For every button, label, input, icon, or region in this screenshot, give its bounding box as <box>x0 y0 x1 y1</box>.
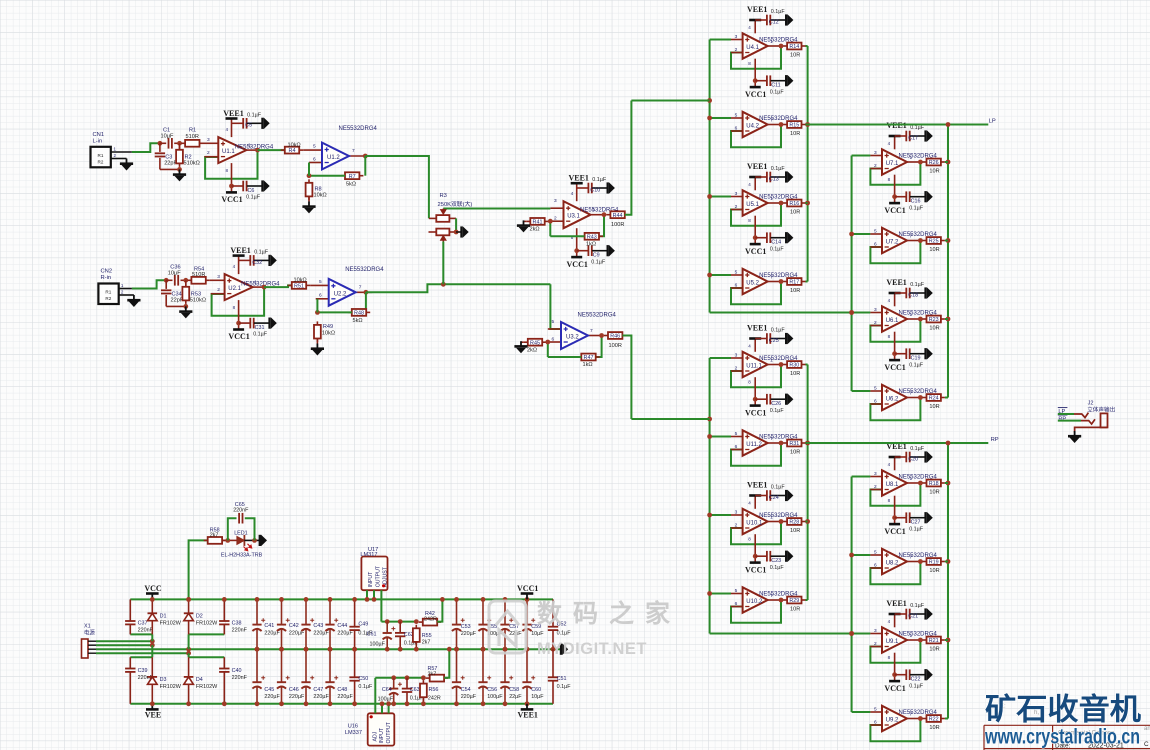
pin <box>731 357 743 359</box>
power port <box>786 490 793 502</box>
wire <box>754 216 756 244</box>
svg-text:R48: R48 <box>354 311 364 317</box>
wire <box>151 645 153 657</box>
capacitor C18 0.1uF <box>906 288 909 299</box>
capacitor C23 0.1uF <box>767 551 770 562</box>
svg-text:2: 2 <box>874 641 877 647</box>
wire (tap) <box>710 514 731 516</box>
svg-text:C40: C40 <box>232 668 242 674</box>
svg-text:C25: C25 <box>769 338 779 344</box>
wire (VEE bottom rail) <box>130 703 553 705</box>
svg-text:U10.1: U10.1 <box>746 521 763 527</box>
pin <box>731 593 743 595</box>
resistor R57 <box>426 675 448 682</box>
svg-text:C63: C63 <box>410 687 420 693</box>
svg-text:C50: C50 <box>358 676 368 682</box>
resistor R23 <box>923 316 945 324</box>
junction <box>405 675 410 680</box>
resistor R31 <box>783 440 805 448</box>
resistor R48 <box>348 309 370 317</box>
svg-text:1: 1 <box>910 476 913 482</box>
capacitor C58 22µF <box>500 649 513 704</box>
svg-text:0.1µF: 0.1µF <box>910 603 925 609</box>
svg-text:INPUT: INPUT <box>368 571 374 587</box>
svg-text:2kΩ: 2kΩ <box>527 347 537 353</box>
junction <box>849 232 854 237</box>
wire <box>308 196 310 201</box>
svg-text:J2: J2 <box>1088 401 1094 407</box>
junction <box>918 395 923 400</box>
svg-text:C18: C18 <box>908 292 918 298</box>
power port VCC1 (C16) <box>889 202 900 205</box>
wire (tap) <box>852 312 871 314</box>
svg-text:10R: 10R <box>790 371 800 377</box>
svg-text:CN1: CN1 <box>93 132 105 138</box>
op-amp U9.1 <box>882 627 907 652</box>
svg-text:C14: C14 <box>771 240 781 246</box>
pin <box>907 397 920 399</box>
ground (CN2) <box>127 295 140 307</box>
wire (seg D4-C40) <box>189 656 225 658</box>
svg-text:2kΩ: 2kΩ <box>530 227 540 233</box>
power port VEE1 (C20) <box>889 456 901 459</box>
op-amp U3.1 <box>564 201 591 228</box>
svg-text:0.1µF: 0.1µF <box>253 332 268 338</box>
pin <box>768 281 781 283</box>
svg-text:10R: 10R <box>929 168 939 174</box>
wire (feedback) <box>870 319 920 342</box>
power port <box>926 512 933 524</box>
junction <box>481 701 486 706</box>
junction <box>918 481 923 486</box>
svg-text:C26: C26 <box>771 401 781 407</box>
svg-text:ADJ: ADJ <box>372 731 378 741</box>
power port <box>786 171 793 183</box>
svg-text:0.1µF: 0.1µF <box>591 259 606 265</box>
capacitor C31 0.1uF <box>250 318 253 329</box>
svg-text:7: 7 <box>910 712 913 718</box>
junction <box>946 238 951 243</box>
svg-text:C51: C51 <box>557 676 567 682</box>
power port (LED) <box>260 535 267 547</box>
power port VEE1 (C24) <box>749 494 761 497</box>
junction <box>222 597 227 602</box>
wire (AC row2) <box>96 644 152 646</box>
junction <box>279 701 284 706</box>
svg-text:10R: 10R <box>929 247 939 253</box>
svg-text:VCC1: VCC1 <box>228 332 249 341</box>
op-amp U5.2 <box>743 269 768 294</box>
power port VCC1 (C31) <box>233 328 244 331</box>
svg-text:220µF: 220µF <box>461 694 477 700</box>
svg-text:0.1µF: 0.1µF <box>771 9 786 15</box>
power port <box>786 232 793 244</box>
junction <box>328 647 333 652</box>
wire <box>755 555 766 557</box>
wire (feedback) <box>870 640 920 663</box>
junction <box>918 638 923 643</box>
potentiometer R3 lower element <box>429 231 437 233</box>
wire <box>910 456 926 458</box>
power port <box>270 255 277 267</box>
wire <box>771 555 787 557</box>
wire <box>755 495 766 497</box>
resistor R53 <box>182 283 189 304</box>
junction <box>481 597 486 602</box>
pin U17 INPUT <box>366 590 368 599</box>
wire <box>910 613 926 615</box>
svg-text:C41: C41 <box>264 623 274 629</box>
wire <box>239 259 250 261</box>
junction <box>391 701 396 706</box>
svg-text:1: 1 <box>910 312 913 318</box>
capacitor C52 0.1µF <box>552 599 554 626</box>
svg-text:220µF: 220µF <box>461 631 477 637</box>
wire <box>159 143 161 152</box>
junction <box>849 631 854 636</box>
junction <box>186 597 191 602</box>
wire <box>456 231 461 233</box>
junction <box>304 701 309 706</box>
svg-text:6: 6 <box>735 601 738 607</box>
svg-text:0.1µF: 0.1µF <box>247 112 262 118</box>
wire (upper-right output bus) <box>947 125 949 398</box>
wire (lower-right input bus) <box>851 477 853 713</box>
wire <box>910 292 926 294</box>
wire <box>771 176 787 178</box>
junction <box>150 643 155 648</box>
junction <box>414 647 419 652</box>
wire <box>165 295 167 307</box>
resistor R30 <box>783 361 805 369</box>
potentiometer R3 lower wiper <box>441 236 446 242</box>
pin <box>205 156 219 158</box>
capacitor C39 220nF <box>129 657 131 668</box>
op-amp U11.2 <box>743 430 768 455</box>
svg-text:CN2: CN2 <box>101 269 113 275</box>
op-amp U4.2 <box>743 112 768 137</box>
pin 1 <box>119 288 132 290</box>
svg-text:MYDIGIT.NET: MYDIGIT.NET <box>537 640 647 658</box>
junction <box>525 647 530 652</box>
junction <box>707 591 712 596</box>
resistor R4 <box>281 147 303 155</box>
power port (0V) <box>561 643 568 655</box>
pin <box>309 162 322 164</box>
wire (tap) <box>852 155 871 157</box>
resistor R16 <box>783 200 805 208</box>
pin <box>870 325 882 327</box>
junction <box>352 647 357 652</box>
LED LED1 <box>237 535 252 551</box>
junction <box>304 647 309 652</box>
svg-text:10R: 10R <box>929 568 939 574</box>
resistor R51 <box>288 282 310 290</box>
pin X1-4 <box>88 652 96 654</box>
svg-text:3: 3 <box>874 471 877 477</box>
svg-text:0.1µF: 0.1µF <box>771 166 786 172</box>
junction <box>525 647 530 652</box>
wire <box>771 398 787 400</box>
potentiometer R3 upper element <box>429 217 436 219</box>
svg-text:C6: C6 <box>248 188 255 194</box>
junction <box>186 651 191 656</box>
svg-text:C32: C32 <box>252 260 262 266</box>
junction <box>849 310 854 315</box>
resistor R44 <box>606 211 628 219</box>
title block lines <box>984 725 1150 750</box>
junction <box>779 201 784 206</box>
wire <box>910 135 926 137</box>
svg-text:220µF: 220µF <box>264 630 280 636</box>
svg-text:0.1µF: 0.1µF <box>909 362 924 368</box>
wire <box>232 122 243 124</box>
pin <box>591 214 605 216</box>
svg-text:6: 6 <box>874 719 877 725</box>
resistor R54 <box>187 277 209 284</box>
svg-text:C12: C12 <box>769 19 779 25</box>
pin U16 ADJ <box>374 678 376 714</box>
pin 2 <box>119 294 134 296</box>
junction <box>918 716 923 721</box>
power port <box>926 348 933 360</box>
svg-text:0.1µF: 0.1µF <box>770 565 785 571</box>
wire <box>910 353 926 355</box>
power port <box>786 14 793 26</box>
wire <box>550 207 563 209</box>
svg-text:2k7: 2k7 <box>210 533 219 539</box>
wire <box>754 59 756 87</box>
pin <box>768 442 781 444</box>
wire <box>945 482 948 484</box>
svg-text:6: 6 <box>735 444 738 450</box>
svg-text:2: 2 <box>735 47 738 53</box>
junction <box>421 701 426 706</box>
svg-text:100µF: 100µF <box>487 694 503 700</box>
wire <box>771 80 787 82</box>
svg-text:C46: C46 <box>289 687 299 693</box>
node (C1 left) <box>158 141 163 146</box>
svg-text:3: 3 <box>874 150 877 156</box>
wire (tap) <box>710 436 731 438</box>
power port <box>263 118 270 130</box>
junction <box>150 597 155 602</box>
svg-text:0.1µF: 0.1µF <box>557 630 572 636</box>
resistor R29 <box>783 597 805 605</box>
pin <box>349 155 365 157</box>
svg-text:R1: R1 <box>189 128 196 134</box>
wire <box>316 299 318 313</box>
wire <box>524 220 527 222</box>
wire <box>806 202 808 204</box>
pin <box>870 168 882 170</box>
wire (C65 right) <box>245 518 255 540</box>
power port <box>926 287 933 299</box>
svg-text:VEE1: VEE1 <box>230 246 250 255</box>
power port <box>786 75 793 87</box>
pin <box>870 711 882 713</box>
svg-text:R44: R44 <box>613 213 623 219</box>
svg-text:0.1µF: 0.1µF <box>910 125 925 131</box>
wire <box>258 149 286 151</box>
capacitor C13 0.1uF <box>767 172 770 183</box>
svg-text:10µF: 10µF <box>531 631 544 637</box>
wire <box>755 338 766 340</box>
connector X1 <box>82 639 89 658</box>
svg-text:VCC1: VCC1 <box>884 527 905 536</box>
wire <box>244 539 259 541</box>
wire (feedback) <box>731 443 781 466</box>
svg-text:U9.2: U9.2 <box>886 718 899 724</box>
junction <box>805 441 810 446</box>
svg-text:R51: R51 <box>294 284 304 290</box>
svg-text:2k7: 2k7 <box>422 640 431 646</box>
svg-text:立体声输出: 立体声输出 <box>1087 405 1115 413</box>
wire <box>895 613 906 615</box>
watermark mydigit icon <box>489 601 526 653</box>
diode D1 <box>148 599 158 634</box>
svg-text:10R: 10R <box>790 131 800 137</box>
svg-text:0.1µF: 0.1µF <box>557 684 572 690</box>
pin <box>768 202 781 204</box>
capacitor C60 10µF <box>522 649 535 704</box>
resistor R41 <box>526 218 548 226</box>
junction <box>946 122 951 127</box>
wire (L feed) <box>631 100 709 102</box>
pin <box>907 639 920 641</box>
svg-text:R30: R30 <box>789 363 799 369</box>
svg-text:10kΩ: 10kΩ <box>294 278 307 284</box>
wire <box>455 218 457 232</box>
junction <box>454 701 459 706</box>
junction <box>707 434 712 439</box>
resistor R42 <box>419 619 441 626</box>
junction <box>779 441 784 446</box>
jack J2 tip contact <box>1074 413 1088 418</box>
junction <box>315 310 320 315</box>
ground (J2) <box>1068 431 1081 443</box>
svg-text:5: 5 <box>874 706 877 712</box>
wire (feedback) <box>870 162 920 185</box>
svg-text:1kΩ: 1kΩ <box>583 362 593 368</box>
diode D2 <box>184 599 194 634</box>
capacitor C6 0.1uF <box>243 181 246 192</box>
svg-text:100µF: 100µF <box>378 696 394 702</box>
node (C36 left) <box>164 278 169 283</box>
resistor R45 <box>524 339 546 347</box>
wire (C65 left) <box>228 518 237 540</box>
svg-text:R3: R3 <box>440 193 447 199</box>
junction <box>849 553 854 558</box>
power rail VCC1 (psu) <box>526 594 528 599</box>
junction <box>548 219 553 224</box>
svg-text:6: 6 <box>735 125 738 131</box>
capacitor C57 22µF <box>500 599 513 649</box>
svg-text:5kΩ: 5kΩ <box>353 318 363 324</box>
svg-text:5: 5 <box>735 588 738 594</box>
wire <box>166 305 186 307</box>
svg-text:3: 3 <box>207 137 210 143</box>
svg-text:C45: C45 <box>264 687 274 693</box>
wire <box>771 495 787 497</box>
svg-text:C24: C24 <box>769 495 779 501</box>
svg-text:C11: C11 <box>771 83 781 89</box>
wire <box>754 339 756 352</box>
svg-text:C44: C44 <box>337 623 347 629</box>
wire <box>806 599 808 601</box>
junction <box>255 597 260 602</box>
wire (tap) <box>852 633 871 635</box>
node (U2.2 out) <box>364 290 369 295</box>
svg-text:RP: RP <box>991 437 999 443</box>
power port VCC1 (C6) <box>226 191 237 194</box>
junction <box>805 201 810 206</box>
wire <box>755 19 766 21</box>
svg-text:VCC1: VCC1 <box>884 363 905 372</box>
svg-text:C34: C34 <box>172 291 182 297</box>
svg-text:10R: 10R <box>790 606 800 612</box>
pin <box>731 196 743 198</box>
svg-text:242R: 242R <box>424 616 437 622</box>
capacitor C63 0.1µF <box>406 678 408 689</box>
capacitor C38 220nF <box>223 599 225 621</box>
svg-text:R2: R2 <box>98 160 104 165</box>
wire <box>549 221 551 236</box>
wire <box>185 280 187 287</box>
pin <box>870 233 882 235</box>
svg-text:5: 5 <box>874 549 877 555</box>
svg-text:2: 2 <box>735 522 738 528</box>
junction <box>386 701 391 706</box>
svg-text:R55: R55 <box>422 633 432 639</box>
svg-text:R-in: R-in <box>101 275 112 281</box>
wire <box>254 322 270 324</box>
resistor R49 <box>314 321 321 342</box>
wire <box>231 119 233 138</box>
wire <box>806 45 808 47</box>
junction <box>503 597 508 602</box>
junction <box>503 647 508 652</box>
wire <box>945 318 948 320</box>
svg-text:an: an <box>1144 726 1150 732</box>
svg-text:7: 7 <box>770 275 773 281</box>
resistor R24 <box>923 394 945 402</box>
svg-text:VCC1: VCC1 <box>745 565 766 574</box>
svg-text:0.1µF: 0.1µF <box>909 526 924 532</box>
pin <box>870 489 882 491</box>
junction <box>279 647 284 652</box>
svg-text:0.1µF: 0.1µF <box>909 205 924 211</box>
svg-text:D2: D2 <box>196 614 203 620</box>
wire (pot wiper R) <box>442 242 444 285</box>
svg-text:7: 7 <box>590 328 593 334</box>
power port <box>270 317 277 329</box>
capacitor C14 0.1uF <box>767 232 770 243</box>
wire <box>894 653 896 681</box>
svg-text:C20: C20 <box>908 456 918 462</box>
svg-text:R28: R28 <box>789 520 799 526</box>
junction <box>946 481 951 486</box>
junction <box>177 167 182 172</box>
svg-text:0.1µF: 0.1µF <box>771 328 786 334</box>
pin <box>870 155 882 157</box>
svg-text:6: 6 <box>874 562 877 568</box>
wire <box>806 364 808 366</box>
pin <box>870 633 882 635</box>
junction <box>255 701 260 706</box>
ground (R49) <box>311 344 324 356</box>
wire (tap) <box>710 117 731 119</box>
